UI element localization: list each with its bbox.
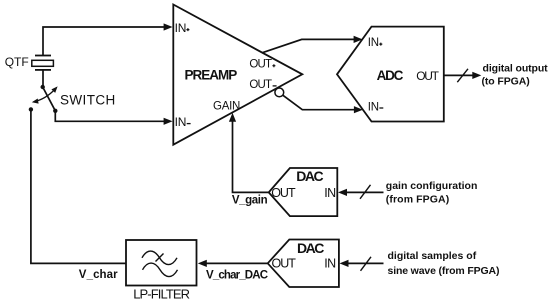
arrowhead into DAC1 IN [338, 189, 347, 196]
arrowhead into ADC IN+ [354, 36, 363, 43]
arrowhead into ADC IN- [354, 106, 363, 113]
svg-text:digital samples of: digital samples of [388, 250, 477, 262]
LP-FILTER box [126, 240, 197, 286]
arrowhead into GAIN [229, 113, 236, 122]
svg-text:V_gain: V_gain [232, 195, 268, 207]
bus slash on ADC output wire [457, 69, 468, 82]
crystal QTF [32, 56, 54, 70]
DAC U3 (sine wave DAC) pentagon [268, 240, 339, 288]
filter sine symbol bottom [143, 263, 178, 277]
filter cutoff slash [156, 254, 164, 262]
bus slash on DAC2 input wire [361, 257, 372, 271]
arrowhead into PREAMP IN- [164, 118, 173, 125]
svg-text:IN: IN [368, 102, 379, 114]
svg-text:sine wave (from FPGA): sine wave (from FPGA) [388, 265, 500, 277]
wire: DAC1 OUT to PREAMP GAIN [233, 122, 269, 193]
switch SW1 [29, 85, 58, 113]
ADC pentagon [337, 27, 444, 122]
svg-text:SWITCH: SWITCH [60, 93, 116, 108]
svg-text:GAIN: GAIN [213, 100, 240, 112]
wire: DAC2 OUT to LP-FILTER [206, 262, 268, 264]
arrowhead into LP-FILTER [198, 260, 207, 267]
arrowhead digital output [472, 72, 481, 79]
svg-text:IN: IN [175, 21, 187, 35]
wire: gain configuration into DAC1 IN [347, 191, 384, 193]
svg-text:OUT: OUT [271, 186, 296, 200]
arrowhead into DAC2 IN [340, 260, 349, 267]
wire: QTF top to PREAMP IN+ [43, 27, 164, 56]
op-amp PREAMP triangle [173, 5, 302, 145]
filter sine symbol top [142, 251, 177, 264]
svg-text:ADC: ADC [377, 68, 404, 83]
inversion bubble on OUT- [275, 88, 284, 97]
wire: crystal to switch pole [42, 70, 44, 86]
bus slash on DAC1 input wire [360, 185, 371, 199]
wire: ADC OUT digital output [444, 74, 473, 76]
wire: PREAMP OUT+ to ADC IN+ [262, 39, 354, 52]
svg-text:(from FPGA): (from FPGA) [386, 193, 450, 205]
svg-text:OUT: OUT [249, 59, 272, 71]
DAC U2 (gain DAC) pentagon [269, 168, 338, 216]
svg-text:V_char_DAC: V_char_DAC [206, 270, 268, 282]
svg-text:V_char: V_char [79, 269, 118, 281]
svg-text:OUT: OUT [249, 79, 272, 91]
wire: digital samples into DAC2 IN [348, 262, 384, 264]
arrowhead into PREAMP IN+ [164, 23, 173, 30]
wire: switch left contact down to V_char node [31, 109, 126, 263]
svg-text:(to FPGA): (to FPGA) [482, 76, 530, 88]
svg-text:DAC: DAC [296, 168, 323, 184]
svg-text:gain configuration: gain configuration [386, 180, 478, 192]
svg-text:IN: IN [175, 115, 187, 129]
svg-text:QTF: QTF [5, 55, 29, 69]
svg-text:IN: IN [324, 186, 336, 200]
svg-text:IN: IN [324, 256, 336, 270]
wire: switch throw to PREAMP IN- [55, 111, 164, 122]
svg-text:digital output: digital output [483, 63, 549, 75]
svg-text:DAC: DAC [297, 240, 324, 256]
svg-text:OUT: OUT [272, 256, 297, 270]
wire: PREAMP OUT- to ADC IN- [283, 95, 355, 110]
svg-text:PREAMP: PREAMP [185, 68, 238, 83]
svg-text:IN: IN [368, 37, 379, 49]
svg-text:LP-FILTER: LP-FILTER [133, 287, 189, 301]
svg-text:OUT: OUT [416, 69, 439, 83]
